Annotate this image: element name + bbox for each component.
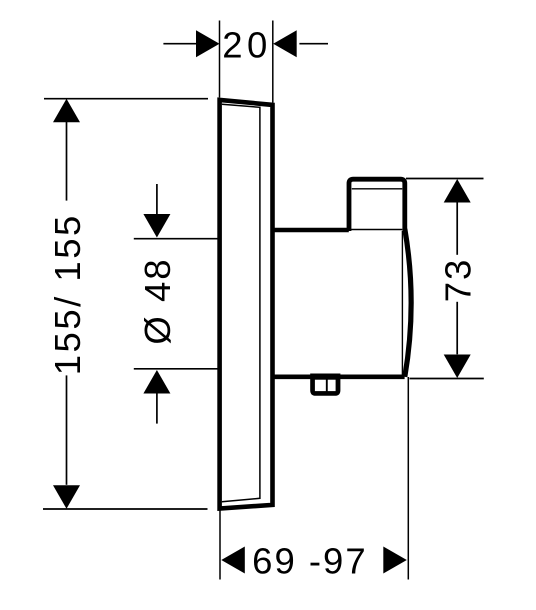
svg-text:155/ 155: 155/ 155 <box>47 213 88 375</box>
svg-text:20: 20 <box>222 24 272 65</box>
svg-text:69 -97: 69 -97 <box>252 541 368 582</box>
svg-text:Ø 48: Ø 48 <box>137 257 178 344</box>
svg-text:73: 73 <box>437 258 478 303</box>
